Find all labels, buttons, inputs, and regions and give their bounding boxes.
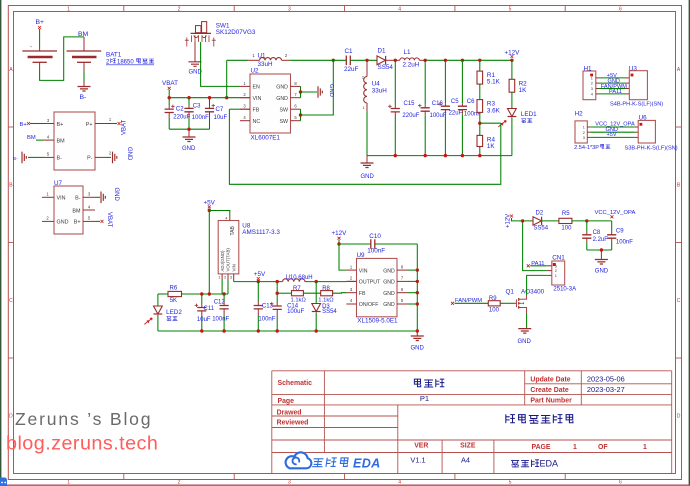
svg-text:2: 2 (591, 82, 593, 86)
svg-text:5K: 5K (170, 298, 177, 304)
svg-text:2.2uF: 2.2uF (593, 237, 609, 243)
svg-text:B-: B- (75, 196, 81, 202)
svg-text:1.1kΩ: 1.1kΩ (291, 298, 307, 304)
svg-text:GND: GND (126, 147, 132, 161)
svg-text:VBAT: VBAT (122, 119, 128, 135)
svg-text:ADJ(GND): ADJ(GND) (220, 250, 225, 272)
svg-text:4: 4 (225, 216, 227, 220)
svg-text:C8: C8 (593, 230, 601, 236)
svg-text:LED1: LED1 (521, 111, 537, 118)
svg-text:3: 3 (583, 136, 585, 140)
svg-text:C: C (677, 298, 681, 304)
svg-text:VIN: VIN (253, 96, 262, 102)
svg-text:B-: B- (57, 156, 63, 162)
svg-text:3: 3 (288, 6, 291, 12)
svg-text:Part Number: Part Number (530, 398, 572, 405)
svg-text:VER: VER (414, 442, 428, 449)
svg-text:1K: 1K (519, 87, 528, 94)
svg-text:220uF: 220uF (173, 115, 190, 121)
svg-text:3.6K: 3.6K (487, 107, 501, 114)
svg-text:C2: C2 (176, 106, 184, 112)
svg-text:2023-03-27: 2023-03-27 (587, 385, 625, 394)
svg-text:2510-3A: 2510-3A (553, 286, 576, 292)
svg-text:EDA: EDA (540, 459, 559, 469)
svg-text:NC: NC (253, 119, 261, 125)
svg-text:C5: C5 (451, 99, 459, 105)
svg-text:33uH: 33uH (372, 88, 388, 95)
svg-text:SIZE: SIZE (460, 442, 476, 449)
svg-text:1: 1 (67, 6, 70, 12)
svg-text:B-: B- (80, 94, 87, 101)
svg-text:B+: B+ (74, 220, 81, 226)
svg-text:SW: SW (279, 119, 288, 125)
svg-text:3: 3 (555, 264, 557, 268)
svg-text:2: 2 (555, 269, 557, 273)
svg-text:VIN: VIN (57, 196, 66, 202)
svg-text:1: 1 (583, 126, 585, 130)
svg-text:XL6007E1: XL6007E1 (251, 135, 281, 142)
svg-text:C1: C1 (345, 48, 354, 55)
svg-text:10uF: 10uF (197, 317, 211, 323)
svg-text:VBAT: VBAT (106, 212, 112, 228)
svg-text:FB: FB (359, 291, 366, 297)
svg-text:Update Date: Update Date (530, 376, 570, 383)
svg-text:B+: B+ (20, 122, 28, 128)
svg-text:GND: GND (383, 302, 395, 308)
svg-text:R7: R7 (293, 286, 301, 292)
svg-text:5: 5 (509, 6, 512, 12)
svg-text:1: 1 (362, 106, 364, 110)
svg-text:Schematic: Schematic (278, 380, 313, 387)
svg-text:Page: Page (278, 398, 295, 405)
svg-text:EN: EN (253, 85, 261, 91)
svg-text:Reviewed: Reviewed (277, 420, 309, 427)
svg-text:+12V: +12V (332, 230, 348, 237)
svg-text:2: 2 (178, 6, 181, 12)
svg-text:+5V: +5V (607, 132, 617, 138)
svg-text:4: 4 (591, 93, 593, 97)
svg-text:D1: D1 (378, 48, 387, 55)
svg-text:BAT1: BAT1 (106, 52, 122, 59)
svg-text:GND: GND (383, 291, 395, 297)
svg-text:SS54: SS54 (322, 309, 337, 315)
svg-text:BM: BM (57, 138, 66, 144)
svg-text:GND: GND (383, 280, 395, 286)
svg-text:100: 100 (561, 225, 572, 231)
svg-text:33uH: 33uH (258, 61, 274, 68)
svg-text:BM: BM (72, 208, 81, 214)
svg-text:Zeruns ’s Blog: Zeruns ’s Blog (15, 409, 152, 429)
svg-text:2: 2 (362, 75, 364, 79)
svg-text:V1.1: V1.1 (410, 456, 425, 465)
svg-text:PA11: PA11 (609, 89, 622, 95)
svg-text:B+: B+ (57, 122, 64, 128)
svg-text:B+: B+ (36, 19, 45, 26)
svg-text:1: 1 (555, 274, 557, 278)
svg-text:220uF: 220uF (402, 113, 419, 119)
svg-text:P-: P- (87, 156, 93, 162)
svg-text:1: 1 (591, 77, 593, 81)
svg-text:BM: BM (27, 135, 36, 141)
svg-text:+5V: +5V (204, 199, 216, 206)
svg-text:OUTPUT: OUTPUT (359, 280, 381, 286)
svg-text:FB: FB (253, 108, 260, 114)
svg-text:D: D (677, 414, 681, 420)
svg-text:+5V: +5V (254, 271, 266, 278)
svg-text:+12V: +12V (505, 50, 521, 57)
svg-text:100nF: 100nF (616, 239, 633, 245)
svg-text:1K: 1K (487, 143, 496, 150)
svg-text:2023-05-06: 2023-05-06 (587, 375, 625, 384)
svg-text:EDA: EDA (353, 456, 381, 470)
svg-text:1: 1 (643, 444, 647, 451)
svg-text:U10 68uH: U10 68uH (286, 275, 313, 281)
svg-text:S4B-PH-K-S(LF)(SN): S4B-PH-K-S(LF)(SN) (610, 102, 663, 108)
svg-text:L1: L1 (404, 49, 412, 56)
svg-text:SS54: SS54 (378, 64, 394, 71)
svg-text:C15: C15 (404, 101, 416, 107)
svg-text:100nF: 100nF (258, 316, 275, 322)
svg-text:P1: P1 (420, 394, 429, 403)
svg-text:-: - (30, 45, 32, 51)
svg-text:R9: R9 (489, 296, 497, 302)
svg-text:SW: SW (279, 108, 288, 114)
svg-text:SS54: SS54 (533, 225, 548, 231)
svg-text:AMS1117-3.3: AMS1117-3.3 (242, 229, 280, 236)
svg-text:GND: GND (182, 146, 196, 152)
svg-text:SK12D07VG3: SK12D07VG3 (216, 29, 256, 36)
svg-text:GND: GND (595, 269, 609, 275)
svg-text:100nF: 100nF (367, 248, 385, 255)
svg-text:H2: H2 (575, 111, 584, 118)
svg-text:TAB: TAB (230, 225, 236, 235)
svg-text:C: C (9, 298, 13, 304)
svg-text:4: 4 (398, 6, 401, 12)
svg-text:C10: C10 (369, 233, 381, 240)
svg-text:R6: R6 (170, 286, 178, 292)
svg-text:10uF: 10uF (214, 115, 228, 121)
svg-text:C12: C12 (214, 300, 226, 306)
svg-text:GND: GND (518, 339, 532, 345)
svg-text:R5: R5 (562, 211, 570, 217)
svg-text:1: 1 (218, 276, 220, 280)
svg-text:1.1kΩ: 1.1kΩ (318, 298, 334, 304)
svg-text:VIN: VIN (359, 268, 368, 274)
svg-text:C11: C11 (204, 306, 215, 312)
svg-text:U2: U2 (251, 68, 260, 75)
svg-text:100nF: 100nF (192, 115, 209, 121)
svg-text:PAGE: PAGE (532, 444, 551, 451)
svg-text:2: 2 (224, 276, 226, 280)
svg-text:100: 100 (489, 307, 500, 313)
svg-text:GND: GND (276, 85, 288, 91)
svg-text:100uF: 100uF (287, 309, 304, 315)
svg-text:Drawed: Drawed (277, 410, 302, 417)
svg-text:2: 2 (583, 131, 585, 135)
svg-text:VOUT(TAB): VOUT(TAB) (226, 248, 231, 272)
svg-text:OF: OF (598, 444, 608, 451)
svg-text:LED2: LED2 (166, 309, 182, 316)
svg-text:C6: C6 (467, 99, 475, 105)
svg-text:R8: R8 (322, 286, 330, 292)
svg-text:VIN: VIN (232, 264, 237, 271)
svg-text:5.1K: 5.1K (487, 79, 501, 86)
svg-text:1: 1 (573, 444, 577, 451)
svg-text:blog.zeruns.tech: blog.zeruns.tech (6, 433, 158, 455)
svg-text:6: 6 (619, 6, 622, 12)
svg-text:Create Date: Create Date (530, 387, 568, 394)
svg-text:+12V: +12V (506, 214, 512, 228)
svg-text:100nF: 100nF (212, 316, 229, 322)
svg-text:GND: GND (276, 96, 288, 102)
svg-text:GND: GND (411, 346, 425, 352)
svg-text:C9: C9 (616, 229, 624, 235)
svg-text:AO3400: AO3400 (521, 288, 545, 295)
svg-text:A4: A4 (461, 456, 470, 465)
svg-text:2.2uH: 2.2uH (403, 61, 420, 68)
svg-text:3: 3 (591, 87, 593, 91)
svg-text:2.54-1*3P: 2.54-1*3P (574, 145, 599, 151)
svg-text:3: 3 (230, 276, 232, 280)
svg-text:XL1509-5.0E1: XL1509-5.0E1 (357, 317, 398, 324)
svg-text:P+: P+ (86, 122, 93, 128)
svg-text:D: D (9, 414, 13, 420)
svg-text:GND: GND (383, 268, 395, 274)
svg-text:GND: GND (113, 188, 119, 202)
svg-text:C7: C7 (216, 107, 224, 113)
svg-text:Q1: Q1 (506, 288, 515, 295)
svg-text:GND: GND (361, 174, 375, 180)
svg-text:D2: D2 (536, 210, 544, 216)
svg-text:B-: B- (13, 156, 18, 161)
svg-text:VBAT: VBAT (162, 80, 178, 87)
svg-text:C3: C3 (193, 104, 201, 110)
svg-text:22uF: 22uF (344, 66, 359, 73)
svg-text:S3B-PH-K-S(LF)(SN): S3B-PH-K-S(LF)(SN) (625, 146, 678, 152)
svg-text:100uF: 100uF (430, 113, 447, 119)
svg-text:22uF: 22uF (449, 111, 463, 117)
svg-text:U4: U4 (372, 80, 381, 87)
svg-text:ON/OFF: ON/OFF (359, 302, 379, 308)
svg-text:GND: GND (57, 220, 69, 226)
svg-text:VCC_12V_OPA: VCC_12V_OPA (595, 210, 636, 216)
